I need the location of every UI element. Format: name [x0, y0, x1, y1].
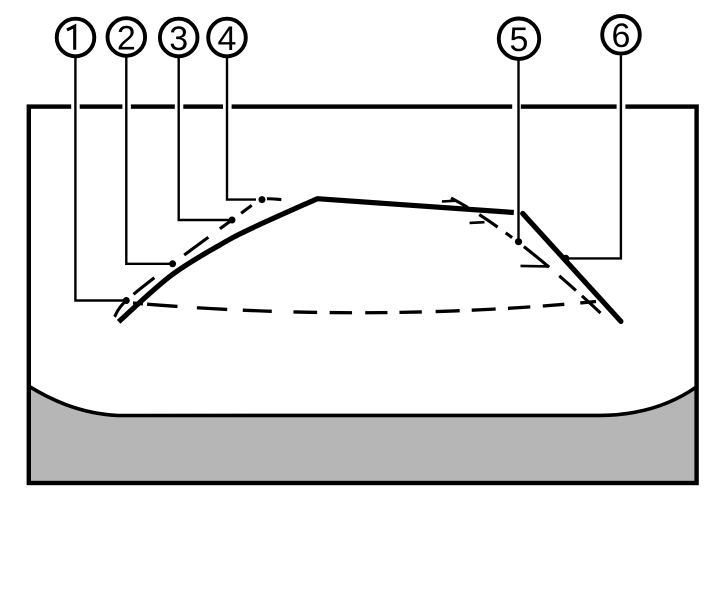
leader line 4 — [227, 58, 256, 200]
callout circle 2 — [108, 18, 146, 57]
frame gap for leader 2 — [122, 103, 130, 110]
distance guide line left (dashed) — [115, 199, 284, 317]
leader line 6 — [566, 56, 621, 259]
callout circle 6 — [602, 16, 640, 55]
frame gap for leader 5 — [512, 103, 521, 110]
frame gap for leader 4 — [223, 103, 232, 110]
bumper area (gray) — [29, 386, 697, 483]
vehicle width guide line right (solid) — [523, 214, 621, 322]
callout circle 1 — [57, 19, 95, 57]
leader line 3 — [179, 58, 232, 221]
svg-text:2: 2 — [117, 19, 136, 57]
marker dot 4 — [259, 196, 266, 203]
tick mark T1 — [442, 199, 456, 202]
svg-text:6: 6 — [612, 17, 631, 55]
monitor screen frame — [29, 107, 697, 483]
marker dot 3 — [229, 217, 236, 224]
marker dot 2 — [169, 260, 176, 267]
predicted course line right (dashed) — [451, 198, 601, 313]
frame gap for leader 1 — [71, 103, 80, 110]
tick mark T2 — [470, 221, 485, 224]
svg-text:3: 3 — [169, 20, 188, 58]
leader line 2 — [126, 57, 172, 264]
bumper edge line — [29, 386, 697, 415]
tick mark T3 — [521, 265, 549, 268]
callout circle 5 — [499, 19, 539, 59]
callout circle 3 — [160, 19, 198, 58]
callout circle 4 — [208, 19, 246, 58]
marker dot 6 — [562, 255, 569, 262]
distance guide line bottom arc (dashed) — [133, 302, 596, 313]
leader line 1 — [75, 58, 126, 301]
leader line 5 — [517, 59, 519, 242]
svg-text:5: 5 — [510, 21, 529, 59]
frame gap for leader 3 — [175, 103, 184, 110]
marker dot 1 — [123, 297, 130, 304]
frame gap for leader 6 — [617, 103, 626, 110]
vehicle width guide line left (solid) — [119, 199, 514, 322]
marker dot 5 — [515, 238, 522, 245]
svg-text:4: 4 — [218, 20, 237, 58]
